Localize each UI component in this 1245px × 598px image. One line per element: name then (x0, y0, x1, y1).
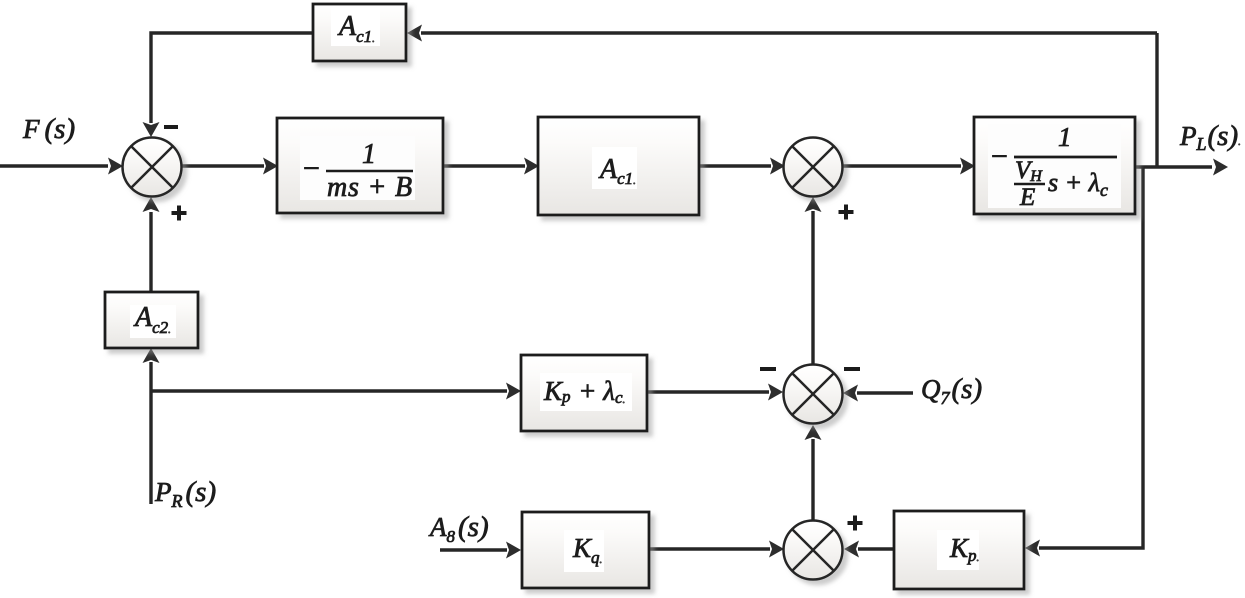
svg-text:PL(s).: PL(s). (1179, 120, 1241, 154)
wire A_c1fb to S1 top (151, 33, 313, 123)
wire G1 to block A_c1 (443, 164, 525, 167)
wire P_R input vertical (149, 362, 152, 504)
block G1 -1/(ms+B) (277, 118, 443, 213)
block K_p (894, 511, 1024, 589)
plus sign at S1 bottom input (172, 206, 187, 221)
wire G3 to output P_L(s) (1135, 165, 1212, 168)
arrowhead into G3 (960, 158, 975, 175)
block K_q (522, 512, 649, 588)
wire S1 to block G1 (182, 164, 264, 167)
wire S2 up to M1 (811, 211, 814, 364)
minus sign at S2 right input (844, 367, 860, 371)
svg-text:A8(s): A8(s) (428, 511, 489, 546)
svg-text:1: 1 (362, 139, 376, 170)
arrowhead into A_c2 bottom (143, 348, 160, 363)
minus sign at S1 top input (164, 125, 178, 129)
svg-text:1: 1 (1058, 122, 1072, 152)
minus sign at S2 left input (760, 367, 776, 371)
block Kp+lc (521, 355, 647, 431)
arrowhead into M2 left (769, 541, 784, 558)
arrowhead into S1 bottom (143, 197, 160, 212)
wire junction to block Kp+lc (151, 389, 507, 392)
svg-text:s + λc: s + λc (1048, 168, 1108, 200)
wire top feedback right vertical (1155, 33, 1158, 168)
summing junction S1 (123, 138, 182, 197)
wire Kq to M2 (649, 547, 770, 550)
multiplier M1 (784, 138, 843, 197)
arrowhead into S2 left (768, 384, 783, 401)
wire Kp+lc to summing junction S2 (647, 390, 769, 393)
block A_c2 (105, 292, 198, 348)
svg-text:E: E (1019, 184, 1035, 211)
arrowhead into M2 right (844, 541, 859, 558)
svg-text:−: − (301, 152, 321, 185)
summing junction S2 (784, 365, 843, 424)
plus sign at M2 top-right input (848, 516, 863, 531)
arrowhead into G1 (263, 158, 278, 175)
arrowhead into Kp+lc (506, 383, 521, 400)
plus sign at M1 bottom input (839, 205, 854, 220)
arrowhead into K_p right side (1025, 540, 1040, 557)
arrowhead into M1 left (770, 158, 785, 175)
svg-text:F(s): F(s) (22, 113, 75, 145)
wire F(s) input (0, 164, 108, 167)
wire M1 to block G3 (842, 164, 961, 167)
arrowhead into M1 bottom (805, 197, 822, 212)
svg-text:ms + B: ms + B (327, 172, 413, 203)
svg-text:PR(s): PR(s) (154, 476, 216, 511)
wire A_c2 to S1 bottom (149, 212, 152, 292)
arrowhead into S1 top (143, 122, 160, 137)
multiplier M2 (784, 521, 843, 580)
svg-text:Q7(s): Q7(s) (921, 373, 982, 408)
arrowhead into S2 right (Q7) (843, 385, 858, 402)
svg-text:−: − (989, 140, 1009, 173)
block G3 -1/((VH/E)s+lc) (974, 117, 1135, 214)
svg-text:Kp + λc.: Kp + λc. (543, 376, 625, 407)
block A_c1 forward path (538, 117, 699, 215)
wire M2 up to S2 (811, 439, 814, 520)
arrowhead into S2 bottom (805, 425, 822, 440)
wire Q7 input (857, 391, 913, 394)
block A_c1 top feedback (313, 4, 406, 61)
wire A_c1 to multiplier M1 (699, 164, 771, 167)
arrowhead into S1 left (108, 158, 123, 175)
arrowhead into K_q (506, 542, 521, 559)
wire top feedback horizontal into A_c1fb (421, 31, 1157, 34)
wire A8 input (440, 548, 507, 551)
arrowhead into A_c1 (524, 158, 539, 175)
arrowhead output P_L (1213, 159, 1228, 176)
arrowhead into A_c1fb right side (407, 25, 422, 42)
wire bottom feedback from output to K_p (1039, 167, 1143, 548)
wire M2 right input from K_p (858, 547, 894, 550)
